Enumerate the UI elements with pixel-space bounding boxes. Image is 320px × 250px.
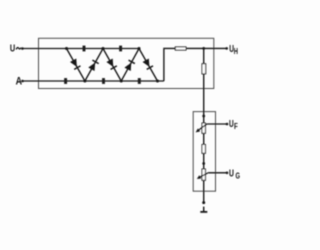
wire R2 to divider: [203, 74, 205, 123]
svg-text:F: F: [234, 121, 238, 131]
terminal UH: [225, 47, 228, 50]
resistor R2 bleeder: [202, 64, 206, 74]
wire junction to R2: [203, 48, 205, 63]
ground: [200, 207, 207, 212]
node B2: [120, 80, 123, 83]
svg-text:U: U: [10, 44, 15, 55]
divider module box: [193, 112, 215, 192]
wire UF: [207, 123, 227, 125]
diode D4: [124, 60, 134, 71]
svg-text:U: U: [229, 168, 234, 179]
wire U~ top rail: [22, 48, 139, 50]
wiper arrow R3: [196, 124, 207, 132]
node T2: [102, 47, 105, 50]
wire R5 to ground: [203, 180, 205, 202]
wire UG: [208, 172, 227, 174]
label A input: [16, 75, 23, 87]
svg-text:G: G: [236, 171, 241, 181]
label U~ input: [10, 44, 21, 55]
resistor R3 focus trimmer: [202, 123, 205, 133]
wire zigzag diode chain: [67, 49, 158, 82]
diode D3: [106, 58, 116, 69]
label UF: [229, 119, 238, 131]
diode D2: [88, 60, 98, 71]
svg-text:U: U: [229, 119, 234, 130]
label UG: [229, 168, 240, 180]
junction divider middle: [202, 162, 205, 165]
label UH: [229, 44, 238, 56]
capacitor C5: [138, 78, 141, 84]
wire R3 to R4: [203, 133, 205, 144]
capacitor C1: [64, 78, 67, 84]
terminal A: [21, 80, 24, 83]
terminal U~: [21, 47, 24, 50]
node B3: [156, 80, 159, 83]
node B1: [83, 80, 86, 83]
junction divider top: [202, 115, 205, 118]
resistor R5 grid trimmer: [202, 169, 205, 180]
diode D5: [143, 58, 153, 69]
terminal UG: [226, 172, 229, 175]
wire output line to UH: [186, 47, 227, 49]
node T1: [65, 47, 68, 50]
wiper arrow R5: [197, 173, 209, 179]
terminal ground dot: [202, 201, 205, 204]
capacitor C4: [119, 46, 122, 52]
resistor R4 middle: [202, 145, 205, 154]
junction UH line: [202, 47, 205, 50]
node T3: [138, 47, 141, 50]
capacitor C3: [102, 78, 105, 84]
resistor R1 series: [175, 47, 186, 50]
terminal UF: [226, 123, 229, 126]
wire R4 to R5: [203, 153, 205, 169]
svg-text:H: H: [234, 46, 238, 56]
wire A bottom rail: [23, 80, 164, 82]
cascade module box: [39, 38, 214, 88]
capacitor C2: [83, 46, 86, 52]
wire riser to output line: [164, 48, 175, 81]
diode D1: [70, 58, 80, 69]
